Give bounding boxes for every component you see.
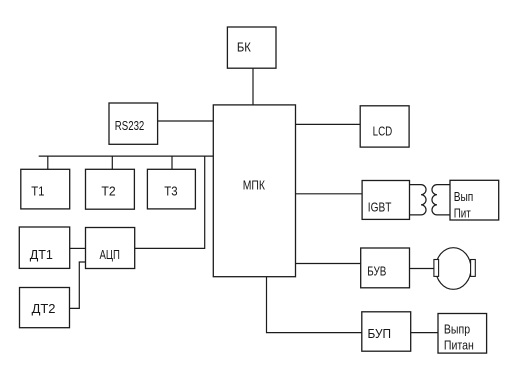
block RS232 <box>109 103 158 144</box>
wire БУВ to motor <box>410 268 435 270</box>
block IGBT <box>362 181 409 220</box>
block ДТ2 <box>20 288 70 328</box>
svg-text:Т1: Т1 <box>31 184 44 199</box>
block АЦП <box>86 228 135 269</box>
transformer primary winding <box>410 185 427 215</box>
wire МПК to БУП <box>267 277 362 333</box>
svg-text:МПК: МПК <box>243 177 266 192</box>
wire ДТ2 to АЦП <box>70 262 86 308</box>
block ДТ1 <box>19 227 69 268</box>
wire stub Т1 <box>47 156 49 169</box>
motor circle M1 <box>436 248 471 290</box>
wire ДТ1 to АЦП <box>70 247 86 249</box>
motor left terminal <box>434 260 439 277</box>
svg-text:АЦП: АЦП <box>100 247 120 262</box>
svg-text:Вып: Вып <box>454 189 474 204</box>
svg-text:БУВ: БУВ <box>367 264 386 279</box>
wire БК to МПК <box>252 68 254 105</box>
svg-text:IGBT: IGBT <box>368 200 392 215</box>
block БК <box>227 27 276 68</box>
wire МПК to IGBT <box>296 193 363 195</box>
svg-text:LCD: LCD <box>373 124 393 139</box>
svg-text:Выпр: Выпр <box>444 321 470 336</box>
motor right terminal <box>471 260 476 277</box>
wire stub Т2 <box>111 156 113 169</box>
block Вып Пит <box>450 180 499 220</box>
block Т2 <box>86 169 135 209</box>
svg-text:БК: БК <box>237 39 251 54</box>
svg-text:Пит: Пит <box>454 206 471 221</box>
block Выпр Питан <box>438 314 487 354</box>
wire МПК to БУВ <box>296 263 361 265</box>
svg-text:Т3: Т3 <box>164 184 177 199</box>
svg-text:БУП: БУП <box>368 326 392 341</box>
block БУП <box>362 312 411 351</box>
block БУВ <box>361 248 410 288</box>
svg-text:RS232: RS232 <box>115 118 145 133</box>
wire stub Т3 <box>171 156 173 169</box>
block Т1 <box>21 169 70 209</box>
block LCD <box>360 106 409 147</box>
wire БУП to Выпр Питан <box>411 332 438 334</box>
wire bus drop to АЦП <box>135 156 205 248</box>
wire sensor bus <box>39 155 214 157</box>
block Т3 <box>147 169 195 209</box>
wire МПК to LCD <box>296 123 361 125</box>
svg-text:Питан: Питан <box>444 338 474 353</box>
wire RS232 to МПК <box>158 120 214 122</box>
transformer secondary winding <box>432 185 450 215</box>
svg-text:Т2: Т2 <box>101 184 115 199</box>
svg-text:ДТ2: ДТ2 <box>32 301 56 316</box>
svg-text:ДТ1: ДТ1 <box>30 247 53 262</box>
block МПК <box>213 105 295 277</box>
